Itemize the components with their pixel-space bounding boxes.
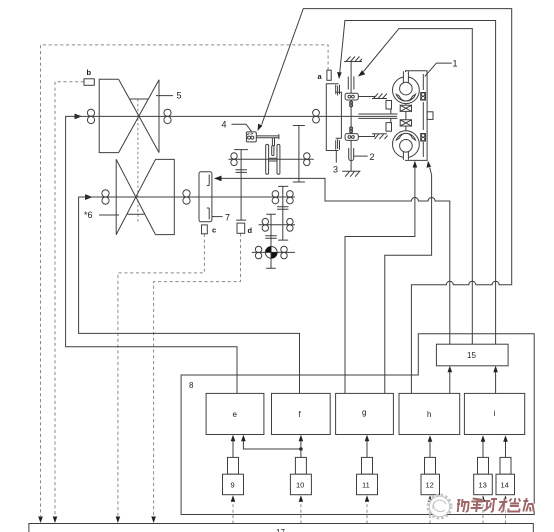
marker c <box>202 225 217 235</box>
bearing pulley5 right <box>164 109 171 123</box>
svg-text:e: e <box>233 410 238 419</box>
arrow into i right <box>503 435 508 442</box>
motor port top <box>386 101 392 110</box>
nozzle 9 <box>228 457 239 474</box>
element 7 housing <box>199 172 212 222</box>
arrow into box 9 <box>231 495 236 502</box>
element 2 clip <box>349 148 354 161</box>
svg-text:c: c <box>212 226 216 235</box>
damper bottom ground <box>342 171 360 177</box>
wire dashed belt centerline <box>137 99 139 222</box>
damper box top <box>345 93 358 100</box>
nozzle 13 <box>478 457 489 474</box>
bearing axis2 left pair <box>272 191 279 204</box>
arrow b-route into box 17 <box>53 517 58 524</box>
arrow into box 14 <box>503 495 508 502</box>
arrow into e right <box>241 435 246 442</box>
arrow a-route into box 17 <box>38 517 43 524</box>
motor valve bowtie top <box>400 105 411 111</box>
clutch outer bracket <box>326 84 338 151</box>
damper shaft upper <box>350 62 352 78</box>
clutch plates bottom <box>336 139 340 150</box>
watermark text halo <box>456 498 535 512</box>
motor rotor top <box>393 71 420 103</box>
damper spring top <box>348 77 354 94</box>
wire nozzle10 to box f <box>300 441 302 457</box>
nozzle 12 <box>425 457 436 474</box>
wire box h to box 15 <box>449 372 451 394</box>
bearing pulley6 left <box>102 190 109 204</box>
wire nozzle12 to box h <box>429 442 431 458</box>
fork post <box>272 138 274 146</box>
shift fork rod <box>256 134 279 139</box>
upper gear axis <box>228 158 313 160</box>
label 2 <box>354 152 375 162</box>
motor port bottom <box>386 123 392 132</box>
main shaft axis (input) <box>74 115 397 117</box>
pulley 5 right sheave <box>158 80 160 153</box>
gear shaft x299 <box>293 126 305 183</box>
wire dashed sensor line d-route <box>154 233 241 516</box>
bearing axis4 left pair <box>255 246 261 259</box>
wire dashed sensor line b-route <box>55 82 84 516</box>
bearing upper axis right <box>304 153 310 166</box>
arrow into box 12 <box>428 495 433 502</box>
gear shaft x241 <box>234 150 248 221</box>
bearing axis4 right pair <box>281 246 287 259</box>
marker b <box>84 68 94 85</box>
damper box bottom <box>345 134 358 141</box>
bearing pulley6 right <box>183 190 190 204</box>
arrow into box 10 <box>299 495 304 502</box>
box 10 <box>290 474 311 495</box>
box i <box>464 393 524 434</box>
box g <box>336 393 394 434</box>
marker d <box>237 223 253 235</box>
arrow into g <box>365 435 370 442</box>
clutch inner hub <box>336 92 342 138</box>
synchronizer H sleeve <box>266 144 280 174</box>
wire S5 element7 sensor to box 15 with hops <box>217 178 450 344</box>
clutch plates top <box>336 85 340 96</box>
wire dashed 17-to-11 <box>366 501 368 524</box>
pulley 5 belt position <box>129 98 148 100</box>
svg-text:b: b <box>87 68 92 77</box>
motor rotor bottom <box>393 131 420 160</box>
arrow S5 at element 7 <box>214 176 222 182</box>
box 17 bottom unit <box>29 524 533 532</box>
stator wall bottom hatched <box>372 134 388 139</box>
wire dashed 17-to-9 <box>232 501 234 524</box>
bearing main axis near clutch <box>313 109 320 123</box>
motor shaft double line <box>358 109 397 123</box>
pulley 6 belt position <box>127 213 145 215</box>
arrow h-to-15 <box>448 366 453 373</box>
bearing axis3 right pair <box>287 218 293 231</box>
wire dashed 17-to-12 <box>429 501 431 524</box>
box 11 <box>357 474 378 495</box>
wire S1 pulley5 control from box e <box>66 116 237 393</box>
arrow into h <box>428 435 433 442</box>
svg-text:10: 10 <box>296 481 304 490</box>
wire dashed sensor line a-route <box>41 45 329 516</box>
gear mesh ticks x241 <box>236 170 247 173</box>
gear mesh ticks x283 <box>277 207 288 209</box>
wire S6c element4 line to box h with hops <box>262 9 512 394</box>
motor unit 1 outer case <box>406 71 428 161</box>
arrow S1 at pulley 5 shaft <box>75 114 83 120</box>
pulley 5 left sheave <box>99 79 118 152</box>
svg-text:8: 8 <box>189 381 194 390</box>
watermark text 汽车动力总成 <box>456 498 535 512</box>
arrow i-to-15 <box>493 366 498 373</box>
arrow into e left <box>231 435 236 442</box>
svg-text:13: 13 <box>479 481 487 490</box>
junction dot on line 10-f <box>299 447 303 451</box>
damper mid shaft <box>350 100 352 134</box>
gear shaft x283 <box>278 186 288 240</box>
svg-text:1: 1 <box>453 59 458 69</box>
wire nozzle13 to box i <box>482 442 484 458</box>
arrow S3 into motor bottom <box>413 161 418 168</box>
box 15 <box>436 344 508 366</box>
box e <box>206 393 264 434</box>
arrow S6c at element 4 <box>258 124 263 131</box>
wire damper to wall top <box>358 97 374 99</box>
nozzle 10 <box>295 457 306 474</box>
svg-text:12: 12 <box>426 481 434 490</box>
box 9 <box>223 474 244 495</box>
svg-text:2: 2 <box>370 152 375 162</box>
svg-text:14: 14 <box>501 481 509 490</box>
wire dashed 17-to-10 <box>300 501 302 524</box>
wire S6b damper line to box 15 <box>364 29 473 345</box>
wire dashed 17-to-13 <box>482 501 484 524</box>
svg-text:11: 11 <box>362 481 370 490</box>
damper small rollers lower <box>350 127 353 133</box>
pulley 6 axis <box>85 196 295 198</box>
element 4 actuator box <box>246 132 256 142</box>
label 1 <box>425 59 458 77</box>
motor right tab <box>427 112 433 120</box>
bearing pulley5 left <box>87 109 94 123</box>
box 8 controller frame <box>181 334 534 515</box>
arrow S2 at pulley 6 shaft <box>85 194 93 200</box>
wire box i to box 15 <box>495 372 497 394</box>
pulley 5 cone diagonals <box>119 79 159 152</box>
wire damper to wall bottom <box>358 134 374 137</box>
wire S2 pulley6 control from box f <box>79 197 300 393</box>
arrow into box 11 <box>365 495 370 502</box>
motor rotor shaft links <box>405 104 407 131</box>
arrow d-route into box 17 <box>151 517 156 524</box>
wire S3 motor line to box g <box>345 167 415 393</box>
box 13 <box>474 474 493 495</box>
pulley 6 right sheave <box>156 159 175 234</box>
svg-text:4: 4 <box>222 120 227 130</box>
pulley 6 left sheave <box>115 159 117 234</box>
damper top ground <box>344 57 362 62</box>
arrow S4 into motor bottom <box>427 161 432 168</box>
svg-text:*6: *6 <box>84 210 93 220</box>
arrow S6b at damper <box>358 70 365 76</box>
svg-text:17: 17 <box>276 528 285 532</box>
pulley 6 cone diagonals <box>116 159 155 234</box>
svg-text:h: h <box>427 410 431 419</box>
arrow S6a at clutch <box>337 72 342 79</box>
nozzle 14 <box>500 457 511 474</box>
motor roller detail bottom <box>421 134 426 142</box>
box h <box>399 393 460 434</box>
arrow into f <box>299 435 304 442</box>
label 3 <box>333 151 338 175</box>
svg-text:9: 9 <box>231 481 235 490</box>
nozzle 11 <box>362 457 373 474</box>
bearing upper axis left <box>231 153 237 166</box>
svg-text:7: 7 <box>225 213 230 223</box>
wire S6a clutch line to box 15 <box>340 21 496 345</box>
marker a <box>318 70 332 81</box>
gear shaft x271 <box>266 214 276 268</box>
gear axis3 <box>259 224 295 226</box>
damper shaft lower <box>350 140 352 171</box>
wire nozzle9 to box e <box>232 441 234 457</box>
bearing axis3 left pair <box>262 218 268 231</box>
wire nozzle11 to box g <box>366 441 368 457</box>
gear mesh ticks x271 <box>265 236 276 238</box>
svg-text:i: i <box>494 409 496 418</box>
vehicle mass symbol (quartered circle) <box>265 247 277 259</box>
svg-text:15: 15 <box>467 351 476 360</box>
arrow into box 13 <box>481 495 486 502</box>
wire dashed sensor line c-route <box>118 234 204 516</box>
motor inner wall <box>422 74 424 157</box>
wire dashed 17-to-14 <box>505 501 507 524</box>
svg-text:5: 5 <box>177 91 182 101</box>
bearing axis2 right pair <box>287 191 294 204</box>
label 5 <box>156 91 182 101</box>
arrow c-route into box 17 <box>116 517 121 524</box>
svg-text:d: d <box>248 226 253 235</box>
svg-text:a: a <box>318 72 323 81</box>
label *6 <box>84 210 119 220</box>
wire nozzle14 to box i <box>505 442 507 458</box>
gear axis4 output <box>252 251 295 253</box>
svg-text:g: g <box>362 408 366 417</box>
arrow into i left <box>481 435 486 442</box>
damper small rollers upper <box>350 101 353 107</box>
motor roller detail top <box>421 93 426 101</box>
box 14 <box>496 474 515 495</box>
label 7 <box>212 213 230 223</box>
svg-text:3: 3 <box>333 165 338 175</box>
box f <box>272 393 331 434</box>
motor valve bowtie bottom <box>400 120 411 126</box>
watermark logo gear <box>428 495 452 519</box>
label 4 <box>222 120 252 133</box>
box 12 <box>421 474 440 495</box>
wire junction branch to box e <box>243 441 301 449</box>
wire S4 motor line2 to box g <box>385 168 432 394</box>
stator wall top hatched <box>372 94 387 99</box>
